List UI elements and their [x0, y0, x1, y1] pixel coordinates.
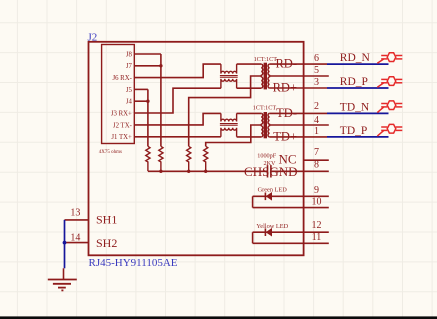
svg-text:11: 11	[312, 232, 322, 243]
svg-text:1CT:1CT: 1CT:1CT	[254, 56, 278, 63]
wire J1 TX+ to choke L2 bottom	[134, 136, 221, 138]
resistor R3 75 ohm	[187, 146, 191, 171]
svg-text:RJ45-HY911105AE: RJ45-HY911105AE	[89, 257, 178, 269]
svg-text:12: 12	[312, 220, 322, 231]
svg-text:J4: J4	[126, 99, 133, 106]
svg-text:13: 13	[70, 208, 80, 219]
wire pin 2 internal TD-	[270, 112, 304, 114]
port TD_N	[377, 101, 402, 113]
wire T1 center tap to resistor R3	[189, 76, 262, 146]
svg-text:8: 8	[314, 160, 319, 171]
svg-text:TD_P: TD_P	[340, 125, 367, 137]
transformer T2 (TX) 1CT:1CT core	[264, 112, 267, 138]
svg-text:6: 6	[314, 53, 319, 64]
wire vertical J8/J7 bus to resistor R2	[160, 54, 162, 146]
wire shield to ground	[64, 220, 66, 268]
wire net TD_N	[327, 112, 389, 114]
pin 6 stub	[304, 63, 327, 65]
svg-text:CHSGND: CHSGND	[244, 164, 297, 179]
svg-text:RD+: RD+	[273, 81, 297, 95]
wire J3 RX+ to choke L1 bottom	[134, 88, 221, 113]
svg-text:J3 RX+: J3 RX+	[111, 110, 132, 117]
svg-text:SH1: SH1	[96, 212, 117, 226]
wire net RD_N	[327, 63, 389, 65]
svg-text:J8: J8	[126, 51, 133, 58]
choke L1 (RX) core	[220, 76, 238, 78]
resistor R1 75 ohm	[146, 146, 150, 171]
pin 9 stub	[304, 195, 329, 197]
wire net RD_P	[327, 87, 389, 89]
port TD_P	[377, 124, 402, 136]
Green LED symbol D1	[253, 195, 304, 197]
pin 1 stub	[304, 136, 327, 138]
wire vertical J5/J4 bus to resistor R1	[147, 89, 149, 146]
transformer T1 (RX) 1CT:1CT right winding	[268, 64, 270, 75]
junction R3/rail	[187, 170, 190, 173]
common-mode choke L2 (TX)	[221, 113, 237, 121]
choke L1 (RX) bottom winding	[221, 79, 237, 88]
pin 14 stub	[65, 242, 89, 244]
junction R2/rail	[159, 170, 162, 173]
svg-text:Green LED: Green LED	[258, 187, 288, 194]
wire net TD_P	[327, 136, 389, 138]
pin 4 stub	[304, 124, 329, 126]
wire choke L1 to transformer T1 bottom	[237, 87, 262, 89]
svg-text:4X75 ohms: 4X75 ohms	[99, 150, 122, 155]
pin 7 stub	[304, 159, 329, 161]
wire pin 4 internal	[270, 124, 304, 126]
svg-text:RD-: RD-	[275, 57, 297, 71]
svg-text:J5: J5	[126, 87, 133, 94]
wire J2 TX- to choke L2 top	[134, 113, 221, 125]
svg-text:RD_P: RD_P	[340, 76, 368, 88]
svg-text:5: 5	[314, 65, 319, 76]
resistor R2 75 ohm	[159, 146, 163, 171]
junction J7/J8	[159, 64, 162, 67]
svg-text:J2: J2	[88, 31, 98, 43]
junction J4/J5	[146, 100, 149, 103]
pin 8 stub	[304, 170, 329, 172]
svg-text:SH2: SH2	[96, 236, 117, 250]
pin 13 stub	[65, 219, 89, 221]
Yellow LED symbol D2	[253, 231, 304, 233]
wire J4	[134, 100, 148, 102]
wire capacitor to pin 8 CHSGND	[271, 170, 304, 172]
svg-text:3: 3	[314, 77, 319, 88]
svg-text:9: 9	[314, 185, 319, 196]
wire pin 1 internal TD+	[270, 136, 304, 138]
wire T2 center tap to resistor R4	[206, 125, 262, 146]
wire pin 3 internal RD+	[270, 87, 304, 89]
svg-text:1CT:1CT: 1CT:1CT	[253, 104, 277, 111]
transformer T1 (RX) 1CT:1CT left winding	[261, 64, 263, 75]
pin 11 stub	[304, 242, 329, 244]
pin 12 stub	[304, 231, 329, 233]
svg-text:Yellow LED: Yellow LED	[256, 223, 288, 230]
common-mode choke L1 (RX)	[221, 64, 237, 74]
wire J5 to R1	[134, 88, 148, 90]
wire pin 6 internal RD-	[270, 63, 304, 65]
ground stem	[63, 268, 65, 279]
wire J6 RX- to choke L1 top	[134, 64, 221, 78]
svg-text:1: 1	[314, 126, 319, 137]
pin 10 stub	[304, 207, 329, 209]
svg-text:J7: J7	[126, 63, 133, 70]
svg-text:TD-: TD-	[276, 106, 297, 120]
svg-text:J6 RX-: J6 RX-	[112, 75, 132, 82]
pin 3 stub	[304, 87, 327, 89]
connector J2 RJ45-HY911105AE component body	[89, 42, 304, 256]
pin 2 stub	[304, 112, 327, 114]
svg-text:RD_N: RD_N	[340, 52, 371, 64]
pin 5 stub	[304, 75, 329, 77]
svg-text:4: 4	[314, 115, 319, 126]
choke L2 (TX) bottom winding	[221, 128, 237, 137]
transformer T1 (RX) 1CT:1CT core	[264, 63, 267, 90]
svg-text:TD+: TD+	[273, 130, 297, 144]
junction SH2/ground wire	[63, 241, 67, 245]
transformer T2 (TX) 1CT:1CT left winding	[261, 113, 263, 124]
RJ45 jack pin box	[102, 45, 135, 144]
svg-text:J2 TX-: J2 TX-	[113, 122, 133, 129]
capacitor C1 1000pF 2KV	[267, 165, 269, 177]
port RD_P	[377, 77, 402, 87]
svg-text:J1 TX+: J1 TX+	[111, 134, 132, 141]
svg-text:2: 2	[314, 101, 319, 112]
transformer T2 (TX) 1CT:1CT right winding	[268, 113, 270, 124]
svg-text:7: 7	[314, 147, 319, 158]
wire choke L1 to transformer T1 top	[237, 63, 262, 65]
choke L2 (TX) core	[220, 124, 238, 126]
wire J7	[134, 65, 161, 67]
wire choke L2 to transformer T2 bottom	[237, 136, 262, 138]
wire choke L2 to transformer T2 top	[237, 112, 262, 114]
wire J8 to R2	[134, 53, 161, 55]
svg-text:1000pF: 1000pF	[257, 152, 276, 159]
ground symbol	[48, 279, 77, 281]
resistor R4 75 ohm	[204, 146, 208, 171]
svg-text:10: 10	[312, 197, 322, 208]
wire pin 5 internal	[270, 75, 304, 77]
svg-text:14: 14	[70, 233, 80, 244]
wire resistor common rail	[148, 170, 267, 172]
junction R4/rail	[204, 170, 207, 173]
port RD_N	[377, 53, 402, 64]
svg-text:TD_N: TD_N	[340, 101, 370, 113]
